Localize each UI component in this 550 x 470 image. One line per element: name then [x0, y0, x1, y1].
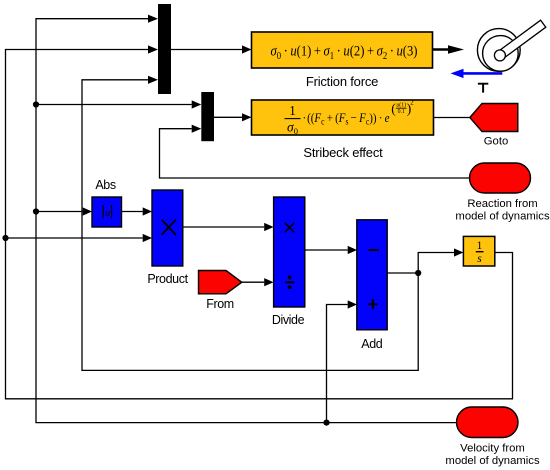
thick arrow Friction force to motor — [433, 45, 465, 54]
arrowhead Mux1 input1 — [148, 15, 158, 23]
motor icon — [477, 20, 545, 71]
svg-text:σ0 · u(1) + σ1 · u(2) + σ2 · u: σ0 · u(1) + σ1 · u(2) + σ2 · u(3) — [271, 44, 418, 63]
wire branch to Add plus input — [327, 305, 348, 423]
arrowhead Product input1 — [143, 207, 152, 215]
arrowhead Product input2 — [143, 234, 152, 242]
svg-text:u: u — [105, 208, 110, 219]
svg-text:Divide: Divide — [272, 313, 305, 327]
wire branch to Mux2 input1 — [36, 104, 192, 106]
torque arrow T (blue) — [451, 69, 503, 93]
svg-text:Product: Product — [147, 272, 188, 286]
from tag From — [199, 271, 242, 312]
svg-text:0.1: 0.1 — [398, 109, 405, 115]
arrowhead Add minus input — [348, 246, 357, 254]
junction dot at Mux2 input1 branch — [33, 101, 39, 107]
integrator block 1/s — [463, 236, 494, 266]
svg-text:Friction force: Friction force — [306, 74, 378, 89]
arrowhead Stribeck input — [242, 113, 252, 121]
outport Reaction from model of dynamics — [455, 163, 550, 223]
svg-text:model of dynamics: model of dynamics — [455, 211, 550, 223]
arrowhead Divide input1 — [264, 223, 273, 231]
wire Mux2 to Stribeck effect — [214, 116, 242, 118]
junction dot at Abs branch — [33, 208, 39, 214]
junction dot at velocity line Add branch — [323, 420, 329, 426]
arrowhead Mux2 input1 — [192, 100, 202, 108]
arrowhead Abs input — [83, 207, 92, 215]
svg-text:1: 1 — [289, 103, 296, 118]
product block Product — [147, 190, 188, 286]
svg-text:Goto: Goto — [484, 136, 509, 148]
svg-text:Stribeck effect: Stribeck effect — [303, 145, 383, 160]
wire Add output down-branch to Mux1 input3 — [82, 80, 418, 371]
block Friction force — [252, 32, 433, 89]
wire Reaction port to Mux2 input2 — [160, 129, 470, 178]
wire Stribeck effect to Goto — [434, 117, 470, 119]
arrowhead Integrator input — [454, 248, 463, 256]
arrowhead Mux1 input3 — [148, 76, 158, 84]
wire branch to Abs input — [36, 211, 83, 213]
wire Abs to Product input1 — [122, 211, 143, 213]
add block Add — [357, 220, 387, 351]
block Stribeck effect — [252, 98, 434, 160]
inport Velocity from model of dynamics — [445, 407, 540, 467]
junction dot at Add output — [415, 270, 421, 276]
svg-text:u(1): u(1) — [396, 102, 406, 109]
junction dot at Product input2 branch — [2, 235, 8, 241]
arrowhead Friction force input — [242, 45, 252, 53]
svg-text:s: s — [477, 253, 482, 265]
arrowhead Add plus input — [348, 300, 357, 308]
divide block Divide — [272, 197, 305, 327]
wire Divide to Add minus input — [305, 249, 348, 251]
svg-text:Add: Add — [361, 337, 382, 351]
svg-text:From: From — [206, 297, 234, 311]
mux Mux1 — [158, 4, 171, 94]
wire velocity feedback to Mux1 input1 — [36, 19, 457, 423]
svg-text:Velocity from: Velocity from — [460, 443, 525, 455]
svg-text:model of dynamics: model of dynamics — [445, 455, 540, 467]
wire integrator output feedback to Mux1 input2 — [6, 50, 513, 399]
wire From to Divide input2 — [242, 281, 264, 283]
wire branch to Product input2 — [6, 237, 143, 239]
goto tag Goto — [470, 104, 518, 148]
arrowhead Mux1 input2 — [148, 45, 158, 53]
svg-text:Abs: Abs — [95, 178, 115, 192]
mux Mux2 — [201, 92, 214, 141]
wire Add output to Integrator — [387, 253, 454, 274]
svg-text:2: 2 — [410, 98, 414, 106]
arrowhead Divide input2 — [264, 278, 273, 286]
wire Mux1 to Friction force — [171, 49, 242, 51]
abs block Abs — [92, 178, 122, 227]
wire Product to Divide input1 — [183, 226, 264, 228]
arrowhead Mux2 input2 — [192, 125, 202, 133]
svg-text:1: 1 — [477, 240, 483, 252]
svg-text:Reaction from: Reaction from — [467, 198, 537, 210]
